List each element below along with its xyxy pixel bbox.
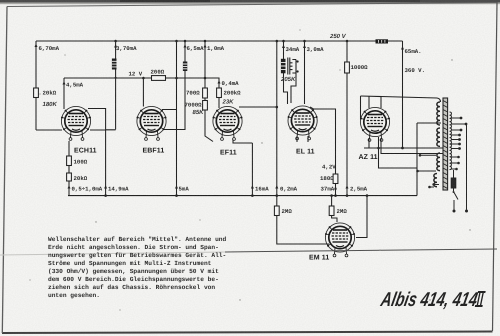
wire EBF11 pin to vertical [162,110,177,130]
wire EBF11 grid cap [142,78,144,107]
T2 primary tap [434,184,439,186]
wire EF11 grid drop [218,98,220,109]
tube EL11 [288,106,318,140]
page border frame [7,3,497,7]
wire screen line 12V [64,78,219,88]
wire left branch 6,70mA [36,41,62,130]
wire EF11 pin to node [239,106,277,108]
wire AZ11 filament top line [361,96,441,102]
resistor R1 20k [34,88,39,98]
bottom chassis bus [68,195,417,197]
resistor R7 200k [217,88,222,98]
transformer T1 secondary [290,60,296,74]
resistor R3 100ohm [67,156,72,166]
T2 left winding section 2 [437,128,440,146]
resistor R8 cathode EL11 [333,174,338,184]
tube EF11 [213,106,243,140]
tube AZ11 [360,107,390,141]
T2 secondary taps [451,118,466,169]
fuse F1 top [376,39,389,43]
T2 plug lines [466,124,468,211]
T2 primary tap stubs [418,155,437,187]
T2 mains fuse [453,170,455,191]
T2 secondary winding [450,112,452,170]
wire rectifier feed 65mA 360V [402,41,404,148]
tube EM11 [325,223,355,257]
wire ECH11 cathode chain [68,141,70,196]
wire EL11 pin stubs [297,136,308,142]
resistor R2 200ohm [152,76,166,81]
wire AZ11 anode lines to transformer [364,138,444,148]
wire coil branch 6,5mA [177,41,186,130]
wire top B+ bus [36,40,403,42]
T2 left winding section 1 [437,102,440,125]
wire HV center tap [417,122,441,124]
wire ECH11 right loop to bottom bus [88,109,106,196]
signature Albis 414,414II [378,289,486,311]
node screen line dots [115,77,117,79]
wire 2M branch 1 [277,196,329,244]
current arrows [35,44,405,190]
resistor R6 7000ohm [203,101,208,111]
resistor R5 700ohm [203,88,208,98]
wire output transformer feed 34mA [284,41,288,104]
wire 1000ohm branch [346,41,348,196]
transformer T1 core [288,58,290,75]
node 360V dot [401,147,404,150]
T2 left winding section 4 [434,174,437,187]
tube EBF11 [137,106,167,140]
inductor L2 [183,62,187,72]
wire EL11 cathode via top pin [310,107,336,196]
resistor R4 20k [67,173,72,181]
wire AZ11 center to bus riser [379,123,418,196]
scan edge dark band top [0,0,500,3]
inductor L1 [112,59,117,70]
T2 left winding section 3 [437,153,440,171]
wire EF11 cathode 16mA [233,140,252,196]
scan speckles [29,29,470,310]
wire T1 secondary to EL11 grid [291,73,296,103]
tube ECH11 [61,106,91,140]
wire between R5 R6 [205,98,213,142]
wire EL11 screen 3,0mA [304,41,306,104]
node EF pin dot [276,106,279,109]
wire EM11 right loop [356,196,367,238]
wire EBF11 bus drop 5mA [176,41,178,196]
chassis fold line [0,252,225,255]
transformer T1 primary [281,59,286,74]
wire 1,0mA bus drop [204,41,206,88]
wire long vertical 0,2mA [276,41,278,196]
resistor R9 1000ohm [345,62,350,73]
resistor R10 2M [274,206,279,216]
T2 switch [454,192,459,211]
T2 core [443,98,448,190]
wire 2M branch 2 [332,196,337,222]
wire grid drop ECH11 [63,78,65,109]
T2 dots [416,117,468,213]
paper grain [0,0,1,1]
resistor R11 2M [329,206,334,216]
junction dots on top bus [104,40,404,197]
power transformer T2 [418,98,467,211]
wire choke branch [106,41,116,130]
node bottom bus dots [104,194,107,197]
